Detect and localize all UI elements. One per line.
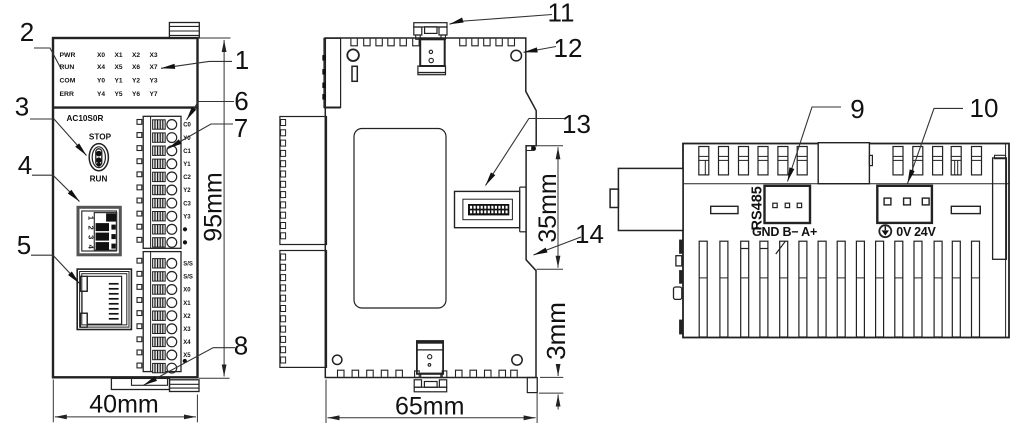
DIN channel top hook nub	[526, 147, 532, 151]
3mm dimension arrows	[557, 367, 559, 376]
svg-text:X4: X4	[97, 64, 105, 71]
callout 1	[161, 61, 232, 68]
svg-text:X1: X1	[114, 52, 122, 59]
svg-text:Y3: Y3	[149, 78, 157, 85]
svg-text:X6: X6	[132, 64, 140, 71]
svg-text:S/S: S/S	[183, 275, 193, 281]
callout 14	[534, 237, 582, 255]
svg-text:Y1: Y1	[114, 78, 122, 85]
svg-text:11: 11	[548, 0, 575, 28]
callout 7	[168, 124, 233, 149]
input terminal block (S/S..X5)	[143, 252, 181, 372]
side view screw hole bottom-left	[333, 355, 342, 364]
side view bottom DIN clip assembly	[417, 341, 443, 374]
svg-text:COM: COM	[60, 78, 76, 85]
svg-text:95mm: 95mm	[200, 172, 228, 241]
output terminal block (C0..Y3)	[143, 116, 181, 248]
svg-text:X3: X3	[183, 327, 191, 333]
svg-text:AC10S0R: AC10S0R	[67, 114, 104, 123]
bottom view left edge details	[680, 240, 684, 253]
svg-text:14: 14	[575, 219, 604, 249]
DIN rail foot bottom-right	[527, 378, 537, 393]
svg-text:RUN: RUN	[90, 174, 108, 183]
RJ45 pins	[109, 283, 119, 285]
95mm dimension line	[223, 40, 225, 377]
svg-text:Y4: Y4	[97, 91, 105, 98]
svg-text:X5: X5	[183, 353, 191, 359]
LED panel divider	[53, 106, 198, 108]
RJ45 communication port	[77, 269, 131, 329]
svg-text:X2: X2	[132, 52, 140, 59]
65mm dimension extension lines	[325, 380, 327, 424]
callout 8	[144, 348, 235, 386]
callout 4	[32, 175, 80, 201]
svg-text:9: 9	[850, 94, 864, 124]
svg-text:X2: X2	[183, 314, 191, 320]
svg-text:C2: C2	[183, 175, 191, 181]
DIP switch S1	[78, 207, 120, 255]
callout 6	[187, 102, 235, 121]
35mm dimension extension lines	[526, 145, 563, 147]
expansion connector 13	[455, 191, 520, 227]
side view top teeth	[351, 39, 357, 46]
slash mark under B-	[776, 241, 786, 254]
svg-text:Y2: Y2	[132, 78, 140, 85]
callout 3	[30, 119, 87, 156]
svg-text:C1: C1	[183, 149, 191, 155]
bottom view body outline	[683, 144, 1009, 338]
bottom view left protruding connector box	[618, 168, 683, 230]
svg-text:X0: X0	[183, 288, 191, 294]
bottom view face separation line	[683, 183, 1009, 185]
svg-text:Y1: Y1	[183, 162, 191, 168]
callout 5	[31, 255, 80, 283]
bottom view center clip box	[818, 143, 869, 184]
svg-text:C0: C0	[183, 123, 191, 129]
side view rounded center panel	[354, 129, 446, 309]
front view body outline	[53, 38, 198, 377]
svg-text:X1: X1	[183, 301, 191, 307]
svg-text:6: 6	[234, 86, 248, 116]
left terminal protrusion lower	[280, 251, 327, 368]
svg-text:X7: X7	[149, 64, 157, 71]
front view bottom DIN clip left part	[111, 378, 169, 389]
svg-text:X5: X5	[114, 64, 122, 71]
svg-text:Y7: Y7	[149, 91, 157, 98]
expansion connector pins	[470, 206, 472, 209]
svg-text:35mm: 35mm	[534, 173, 562, 242]
svg-text:10: 10	[970, 93, 999, 123]
side view screw hole top-left	[347, 49, 359, 61]
svg-text:RS485: RS485	[750, 186, 766, 230]
DIN channel top hook blob	[532, 147, 536, 151]
svg-text:Y5: Y5	[114, 91, 122, 98]
side view bottom teeth	[338, 370, 345, 377]
svg-text:0V 24V: 0V 24V	[896, 225, 936, 239]
callout 10	[908, 108, 964, 183]
terminal strip small squares column	[137, 120, 142, 125]
bottom view top vent slots	[699, 147, 709, 175]
callout 9	[788, 107, 842, 182]
bottom view right tall cover	[993, 158, 1007, 259]
RUN/STOP toggle switch	[89, 144, 108, 171]
earth symbol	[879, 225, 891, 237]
side view screw hole top-right	[511, 50, 522, 61]
svg-text:RUN: RUN	[60, 64, 75, 71]
svg-text:Y6: Y6	[132, 91, 140, 98]
callout 12	[524, 47, 557, 53]
svg-text:2: 2	[20, 17, 34, 47]
left terminal protrusion upper	[280, 117, 327, 245]
40mm dimension extension lines	[52, 380, 54, 423]
24V power connector	[877, 186, 932, 223]
bottom view side slots	[711, 206, 738, 213]
svg-text:ERR: ERR	[60, 91, 74, 98]
svg-text:X0: X0	[97, 52, 105, 59]
svg-text:40mm: 40mm	[89, 391, 158, 419]
svg-text:PWR: PWR	[60, 52, 76, 59]
35mm dimension line	[557, 147, 559, 268]
svg-text:S/S: S/S	[183, 262, 193, 268]
front view top DIN clip	[169, 23, 199, 39]
svg-text:X3: X3	[149, 52, 157, 59]
svg-text:7: 7	[234, 113, 248, 143]
side view slot below hole	[352, 66, 357, 81]
svg-text:3mm: 3mm	[541, 302, 571, 360]
RS485 connector	[765, 186, 811, 223]
svg-text:GND B− A+: GND B− A+	[752, 225, 817, 239]
callout 13	[486, 119, 566, 186]
bottom view heat sink fins	[699, 241, 707, 337]
svg-text:Y3: Y3	[183, 214, 191, 220]
front view bottom DIN clip right part	[170, 380, 200, 392]
side view screw hole bottom-right	[512, 355, 522, 365]
svg-text:13: 13	[562, 109, 591, 139]
svg-text:4: 4	[18, 150, 32, 180]
3mm dimension extension lines	[540, 376, 563, 378]
side view body outline	[325, 38, 536, 378]
side view top-left cover box	[324, 38, 341, 107]
svg-text:8: 8	[234, 331, 248, 361]
svg-text:Y2: Y2	[183, 188, 191, 194]
svg-text:Y0: Y0	[97, 78, 105, 85]
svg-text:12: 12	[554, 33, 583, 63]
side view top DIN clip assembly	[414, 23, 447, 27]
svg-text:3: 3	[15, 92, 29, 122]
svg-text:X4: X4	[183, 340, 191, 346]
bottom view right inner edge line	[1005, 144, 1007, 338]
40mm dimension line	[55, 416, 196, 418]
95mm dimension extension lines	[199, 37, 231, 39]
svg-text:5: 5	[17, 230, 31, 260]
callout 2	[34, 48, 62, 70]
svg-text:1: 1	[235, 45, 249, 75]
svg-text:65mm: 65mm	[395, 393, 464, 421]
svg-text:STOP: STOP	[89, 132, 112, 141]
svg-text:C3: C3	[183, 201, 191, 207]
callout 11	[450, 15, 553, 25]
DIP switch sliders	[107, 214, 116, 221]
65mm dimension line	[328, 417, 536, 419]
